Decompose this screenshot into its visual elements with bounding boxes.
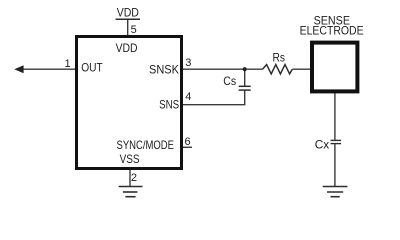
svg-text:ELECTRODE: ELECTRODE	[300, 23, 364, 37]
svg-text:Cx: Cx	[315, 138, 330, 152]
svg-text:1: 1	[65, 58, 71, 70]
svg-text:Rs: Rs	[273, 51, 286, 65]
svg-text:Cs: Cs	[223, 74, 236, 88]
svg-text:OUT: OUT	[81, 61, 103, 75]
svg-text:SNSK: SNSK	[149, 62, 179, 76]
svg-text:2: 2	[131, 172, 137, 184]
svg-text:VDD: VDD	[116, 41, 138, 55]
svg-text:3: 3	[185, 57, 191, 69]
svg-text:5: 5	[131, 24, 137, 36]
svg-text:VSS: VSS	[120, 152, 140, 166]
svg-text:4: 4	[185, 91, 191, 103]
svg-text:VDD: VDD	[117, 5, 139, 19]
svg-text:SNS: SNS	[159, 98, 179, 112]
svg-text:SYNC/MODE: SYNC/MODE	[117, 138, 175, 152]
svg-text:6: 6	[185, 136, 191, 148]
